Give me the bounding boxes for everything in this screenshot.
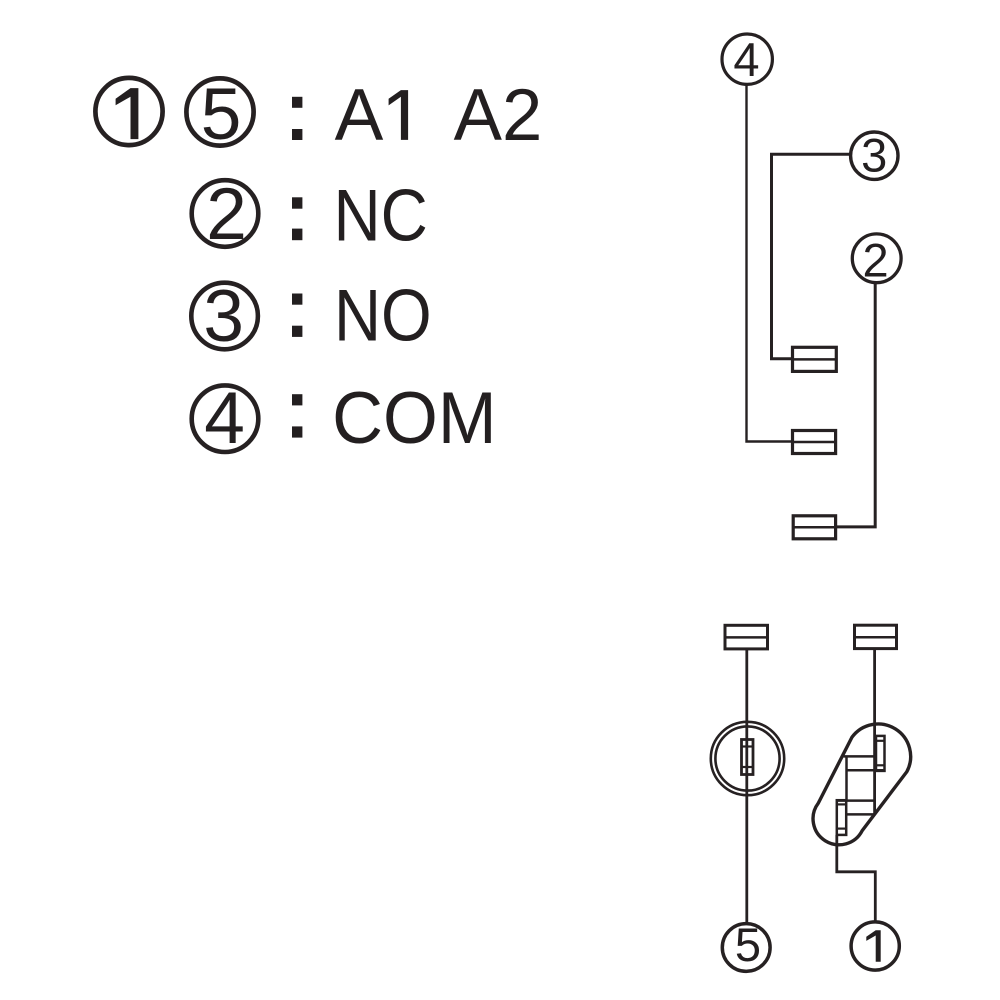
svg-text:2: 2	[863, 233, 889, 286]
svg-text:5: 5	[735, 918, 761, 971]
link bar upper (double line)	[844, 756, 885, 770]
blade terminal NC	[793, 516, 835, 539]
wire A1: terminal to node 5 through coil eyelet	[745, 648, 748, 922]
node 4 (COM pin circle)	[722, 33, 772, 86]
pin symbol 4 (legend circle)	[192, 378, 259, 459]
svg-text:4: 4	[204, 378, 245, 459]
coil body (tilted capsule)	[813, 724, 911, 845]
svg-text:2: 2	[206, 174, 247, 255]
svg-text:A: A	[335, 75, 384, 156]
svg-text:NO: NO	[334, 274, 432, 356]
pin symbol 3 (legend circle)	[191, 276, 258, 357]
svg-text:NC: NC	[334, 174, 428, 256]
legend row 3 colon	[292, 294, 302, 337]
coil pin cross-section (lower, inside capsule)	[837, 800, 846, 835]
node 3 (NO pin circle)	[851, 129, 898, 182]
link bar lower (double line)	[837, 801, 875, 815]
svg-text:A2: A2	[454, 75, 543, 156]
coil pin cross-section (upper, inside capsule)	[876, 736, 885, 771]
svg-text:4: 4	[733, 33, 759, 86]
blade terminal A1	[725, 625, 768, 649]
legend row 4 colon	[292, 394, 302, 437]
wire NO: node 3 to NO blade terminal	[772, 154, 850, 358]
node 1 (A2 pin circle)	[851, 922, 899, 970]
wire COM: node 4 to COM blade terminal	[747, 84, 793, 441]
coil eyelet inner ring	[715, 726, 779, 790]
coil eyelet outer ring	[711, 722, 784, 795]
blade terminal COM	[793, 431, 836, 454]
blade terminal A2	[855, 625, 897, 648]
wire A2: terminal into coil body	[873, 648, 876, 815]
svg-text:5: 5	[201, 74, 242, 155]
coil pin cross-section (in eyelet)	[742, 740, 754, 775]
legend row 1 colon	[292, 97, 302, 140]
pin symbol 2 (legend circle)	[192, 174, 259, 255]
node 2 (NC pin circle)	[852, 233, 901, 286]
wire NC: node 2 to NC blade terminal	[836, 283, 876, 527]
legend row 2 colon	[292, 197, 302, 240]
svg-text:COM: COM	[332, 378, 496, 459]
node 5 (A1 pin circle)	[722, 918, 770, 971]
svg-text:3: 3	[203, 276, 244, 357]
svg-text:3: 3	[861, 129, 887, 182]
blade terminal NO	[793, 347, 837, 371]
pin symbol 5 (legend circle)	[186, 74, 253, 155]
link bar vertical	[845, 757, 848, 801]
pin symbol 1 (legend circle)	[95, 78, 162, 145]
wire A2: coil to node 1	[837, 835, 876, 921]
